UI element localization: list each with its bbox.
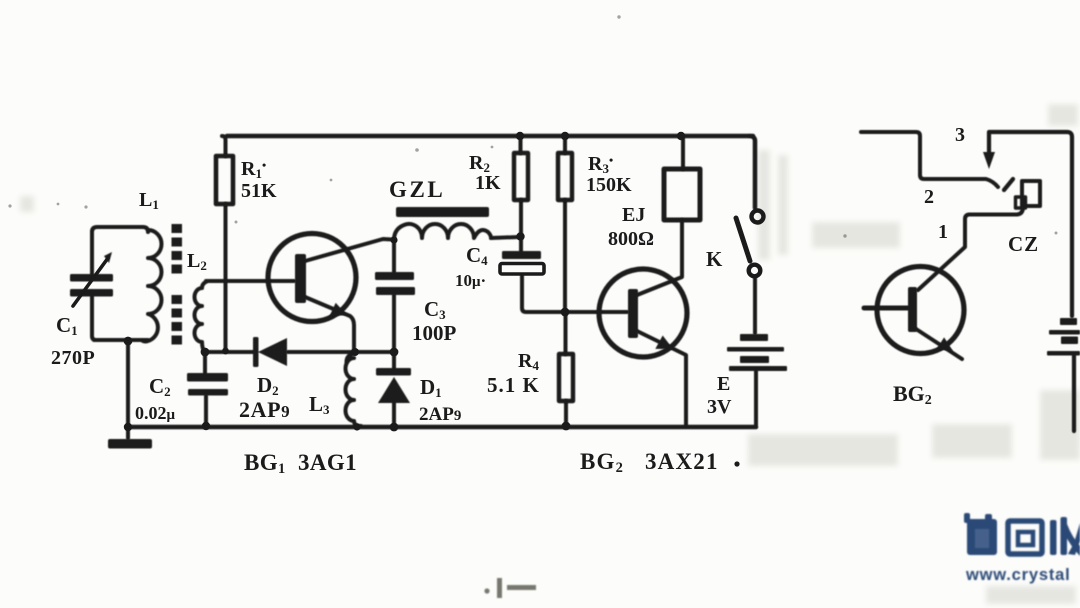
watermark logo kuangshishou <box>964 513 1080 584</box>
node dot emitter L3 <box>351 348 359 356</box>
diode D1 triangle <box>378 377 410 403</box>
gray press marks bottom middle <box>484 578 536 598</box>
wire C2 top stub <box>203 352 207 373</box>
inductor L2 secondary coil <box>195 281 209 352</box>
capacitor C2 plate bottom <box>188 389 228 396</box>
wire tank top <box>92 227 148 232</box>
wire D1 bottom stub <box>392 402 396 427</box>
wire R4 bottom stub <box>564 401 568 426</box>
svg-text:BG2 3AX21: BG2 3AX21 <box>580 449 719 476</box>
stray dot after 3AX21 <box>734 461 739 466</box>
battery E plate 3 short <box>740 356 769 363</box>
wire C4 to base node <box>522 274 627 312</box>
wire base node to R4 <box>564 312 568 354</box>
scattered scan specks <box>8 15 1057 237</box>
node dot D1 top <box>390 348 399 357</box>
node dot rail C2 <box>202 422 210 430</box>
wire detector node horizontal left <box>205 350 254 354</box>
svg-text:1: 1 <box>938 221 948 243</box>
capacitor C1 plate top <box>70 274 113 282</box>
jack CZ tab <box>1016 197 1026 208</box>
inductor L3 emitter coil <box>346 353 362 426</box>
GZL choke core bar <box>396 207 489 217</box>
wire top supply rail <box>227 134 753 139</box>
node dot L2 C2 detector <box>201 348 210 357</box>
wire C3 top stub from collector node <box>392 240 396 272</box>
node dot rail R2 <box>516 132 524 140</box>
svg-text:3: 3 <box>955 124 965 146</box>
wire pin1 lead to spare transistor <box>918 207 1023 290</box>
svg-text:1K: 1K <box>475 172 501 194</box>
transistor BG1 circle <box>268 234 356 322</box>
iron core between L1 and L2 <box>172 224 183 233</box>
variable capacitor C1 arrow <box>104 252 112 263</box>
svg-text:800Ω: 800Ω <box>608 228 654 250</box>
capacitor C1 plate bottom <box>70 289 113 297</box>
svg-text:3V: 3V <box>707 396 732 418</box>
svg-text:www.crystal: www.crystal <box>965 566 1070 584</box>
right battery plate short 1 <box>1060 318 1077 325</box>
transistor BG1 base bar <box>295 254 306 303</box>
wire R3 top stub <box>563 136 567 153</box>
switch K top contact <box>752 211 764 223</box>
diode D1 cathode bar <box>376 368 411 376</box>
inductor L1 tank coil <box>143 230 162 342</box>
wire EJ top stub <box>681 136 685 169</box>
node dot rail EJ <box>677 132 685 140</box>
node dot rail D1 <box>390 423 399 432</box>
svg-text:2AP9: 2AP9 <box>419 404 461 425</box>
wire C2 bottom stub <box>204 396 208 426</box>
wire R1 branch top <box>222 136 226 156</box>
wire C3 bottom to detector node <box>392 295 396 351</box>
node dot rail ground <box>124 423 132 431</box>
svg-text:E: E <box>717 373 730 395</box>
node dot rail R3 <box>561 132 569 140</box>
node dot collector C3 GZL <box>390 236 397 243</box>
resistor R2 1K <box>514 153 528 200</box>
node dot R1 detector wire <box>222 348 229 355</box>
node dot rail L3 <box>353 423 360 430</box>
diode D2 cathode bar <box>253 337 259 367</box>
wire tank left upper <box>90 231 94 274</box>
spare transistor emitter lead <box>916 329 962 359</box>
svg-text:150K: 150K <box>586 174 632 196</box>
wire switch to battery <box>753 277 757 333</box>
switch K lever <box>736 218 750 261</box>
svg-text:51K: 51K <box>241 180 277 202</box>
right battery plate long 1 <box>1049 330 1080 335</box>
right battery stem lower <box>1072 355 1076 431</box>
wire tank to ground rail <box>126 342 130 427</box>
node dot base node R3 C4 <box>561 308 570 317</box>
node dot tank bottom <box>124 337 133 346</box>
wire R2 bottom through node to C4 <box>519 200 523 251</box>
transistor BG2 circle <box>599 269 687 357</box>
jack CZ contact dash <box>1004 179 1013 190</box>
wire ground stub <box>126 427 130 438</box>
svg-text:5.1 K: 5.1 K <box>487 373 540 397</box>
wire BG1 base from L2 top <box>206 279 294 283</box>
battery E plate 2 long <box>727 347 784 352</box>
wire switch branch from rail <box>749 136 755 208</box>
earphone EJ 800ohm <box>664 169 700 220</box>
transistor BG2 emitter arrow <box>655 336 673 350</box>
wire BG1 emitter lead <box>305 297 354 351</box>
capacitor C4 plate top <box>502 251 541 259</box>
wire R2 top stub <box>519 136 523 153</box>
spare transistor base lead <box>864 306 908 311</box>
wire battery to ground rail <box>754 371 758 427</box>
wire tank left lower <box>92 296 96 340</box>
wire tank bottom <box>94 338 148 342</box>
svg-text:270P: 270P <box>51 347 95 369</box>
inductor GZL choke coil <box>394 224 491 240</box>
svg-text:CZ: CZ <box>1008 232 1039 256</box>
svg-text:BG1 3AG1: BG1 3AG1 <box>244 450 357 477</box>
wire pin3 arrowhead <box>983 152 995 169</box>
wire bottom ground rail <box>128 425 756 430</box>
battery E plate 1 short <box>740 334 768 341</box>
wire D1 top stub <box>392 352 396 369</box>
ground symbol bar <box>108 439 152 449</box>
capacitor C3 plate top <box>375 272 414 280</box>
transistor BG2 base bar <box>628 289 638 338</box>
svg-text:10μ·: 10μ· <box>455 271 486 290</box>
capacitor C4 hollow plate <box>500 264 544 275</box>
capacitor C3 plate bottom <box>376 287 415 295</box>
spare transistor BG2 circle <box>877 267 964 354</box>
wire BG1 collector lead <box>305 239 392 261</box>
svg-text:EJ: EJ <box>622 204 645 226</box>
wire BG2 emitter lead <box>637 331 686 426</box>
right battery plate short 2 <box>1061 337 1078 345</box>
svg-text:K: K <box>706 247 723 271</box>
wire pin3 lead <box>989 132 1072 316</box>
spare transistor emitter arrow <box>936 337 953 351</box>
resistor R3 150K <box>558 153 572 200</box>
wire BG2 collector lead <box>637 220 682 295</box>
jack CZ body <box>1022 181 1040 206</box>
node dot rail R4 <box>562 422 571 431</box>
variable capacitor C1 arrow shaft <box>73 258 108 306</box>
resistor R1 51K <box>216 156 233 204</box>
switch K bottom contact <box>749 265 761 277</box>
resistor R4 5.1K <box>559 354 573 401</box>
node dot GZL R2 <box>516 232 524 240</box>
svg-text:GZL: GZL <box>389 177 445 202</box>
transistor BG1 emitter arrow <box>329 303 347 317</box>
wire detector node horizontal right <box>288 350 395 354</box>
svg-text:2: 2 <box>924 186 934 208</box>
wire R3 bottom to base node <box>563 200 567 312</box>
wire pin2 lead <box>861 132 998 187</box>
svg-text:100P: 100P <box>412 321 457 345</box>
wire GZL to R2 node <box>491 237 519 238</box>
diode D2 triangle <box>258 338 287 366</box>
wire R1 bottom down to detector node <box>224 204 228 350</box>
right battery plate long 2 <box>1047 351 1080 356</box>
capacitor C2 plate top <box>187 373 228 382</box>
spare transistor base bar <box>908 287 917 332</box>
battery E plate 4 long <box>729 366 787 371</box>
